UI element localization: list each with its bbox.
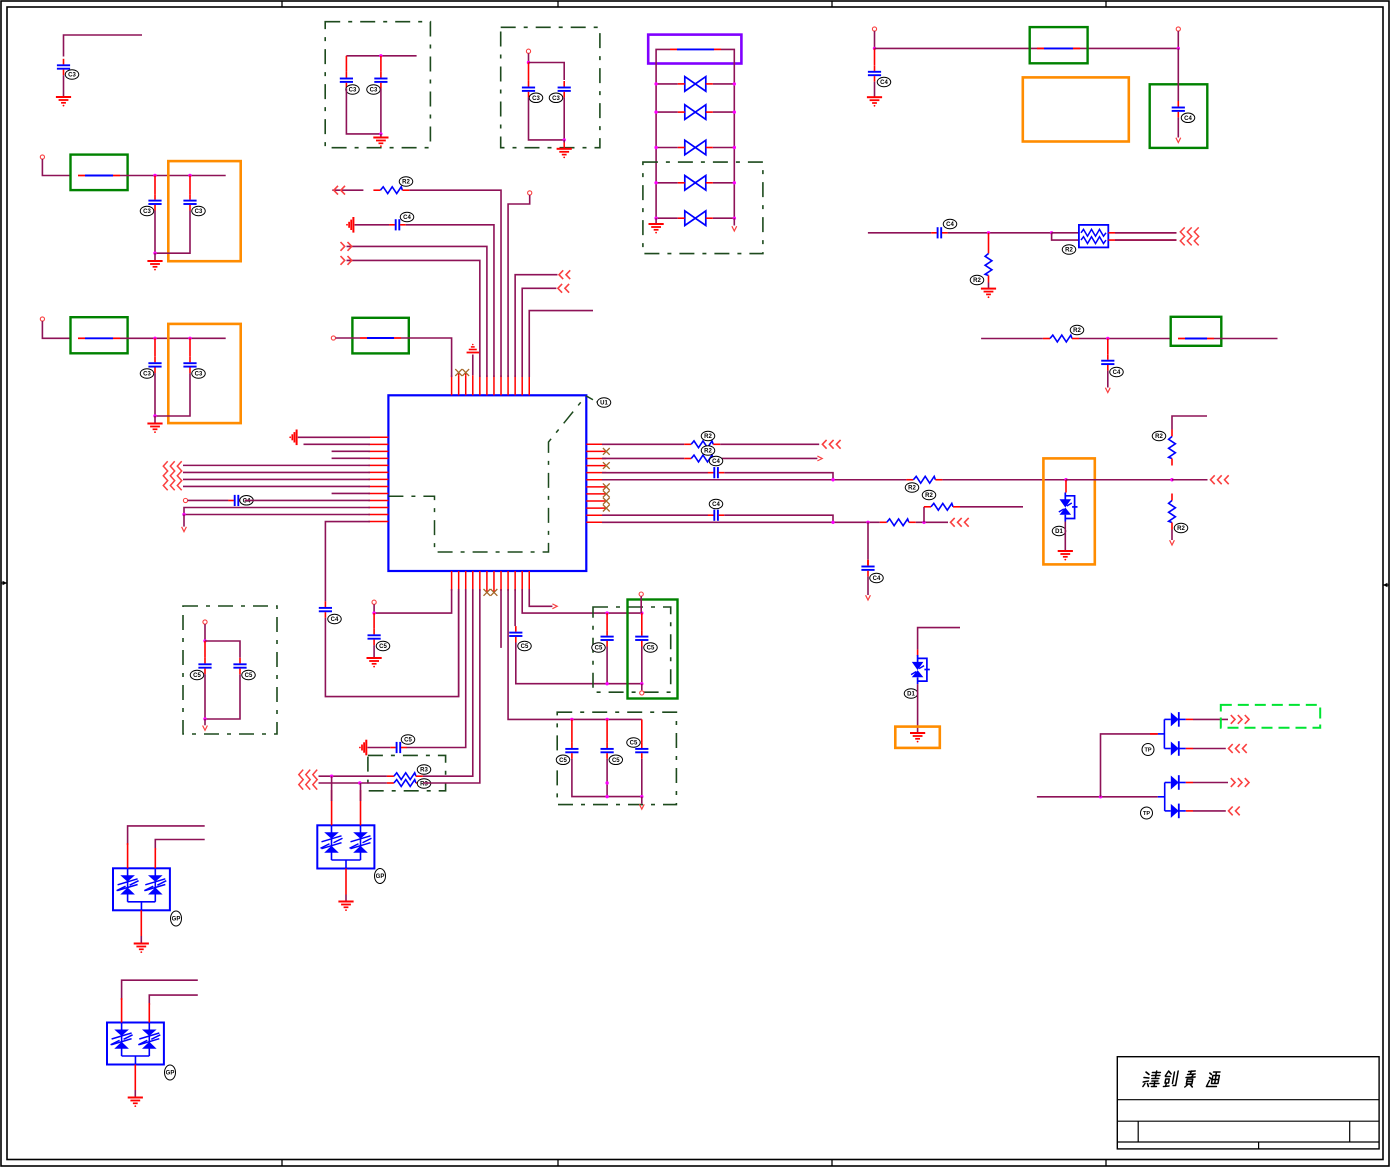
- wire R12 main: [602, 521, 880, 523]
- port arrow L12: [182, 527, 187, 532]
- off-page bus wave L5-L8: [163, 461, 181, 490]
- label C53: [592, 643, 606, 653]
- wire C56 down: [606, 759, 608, 797]
- wire pin T6 to connector: [347, 246, 487, 377]
- wire D4 to arrow: [204, 719, 206, 725]
- capacitor C45 series: [228, 495, 244, 506]
- wire C34 down: [154, 373, 156, 416]
- ground cluster2: [154, 416, 156, 424]
- wire R21 to junction: [1079, 338, 1171, 340]
- port P3: [526, 49, 530, 53]
- svg-text:D1: D1: [1055, 529, 1063, 535]
- junction: [1177, 47, 1180, 50]
- ground O5: [910, 733, 925, 742]
- diode D17b: [1164, 748, 1170, 750]
- wire B11 to caps A B: [522, 589, 642, 613]
- wire B12 to arrow: [529, 589, 552, 606]
- wire GP2 col2 top: [149, 995, 198, 1005]
- label C36: [346, 85, 360, 95]
- capacitor C32: [154, 176, 156, 195]
- label C37: [367, 85, 381, 95]
- wire C55 down: [572, 759, 642, 797]
- wire D17b out: [1193, 748, 1226, 750]
- port P10: [639, 592, 643, 596]
- wire C45 to pin L10: [245, 499, 370, 501]
- wire D18b out: [1193, 810, 1226, 812]
- capacitor C59: [233, 658, 246, 674]
- wire L12: [184, 514, 370, 516]
- dashed box D6: [557, 712, 676, 804]
- port P1: [40, 155, 44, 159]
- wire D17a out: [1193, 718, 1228, 720]
- orange box O5: [895, 727, 940, 748]
- chassis symbol B3: [359, 740, 366, 756]
- label C41: [1181, 113, 1195, 123]
- port arrow C41: [1176, 138, 1181, 143]
- wire FB2 to caps: [120, 337, 226, 339]
- dashed box D7 (resistors): [368, 755, 446, 790]
- port arrow right B12: [552, 604, 557, 609]
- capacitor C39: [558, 81, 571, 97]
- junction: [605, 718, 608, 721]
- label C31: [65, 70, 79, 80]
- diode D17a: [1164, 718, 1170, 720]
- capacitor C53: [606, 613, 608, 630]
- label C43: [1110, 367, 1124, 377]
- capacitor C54: [641, 613, 643, 630]
- wire FB3 to pin T1: [401, 338, 452, 377]
- svg-text:C3: C3: [143, 209, 151, 215]
- wire C33 down: [155, 211, 190, 254]
- wire row338 right: [1214, 338, 1278, 340]
- junction: [153, 252, 156, 255]
- svg-text:R2: R2: [704, 449, 712, 455]
- no-connect R10: [603, 505, 610, 512]
- orange box U-opt1: [168, 161, 240, 261]
- wire R1 to resistor: [602, 443, 684, 445]
- label C49: [870, 573, 884, 583]
- wire wave to R31: [319, 782, 387, 784]
- no-connect R2: [603, 448, 610, 455]
- ferrite bead FB1 green box: [71, 155, 128, 191]
- label D15: [1052, 526, 1066, 536]
- wire GP2 to ground: [134, 1065, 136, 1091]
- label R24: [701, 446, 715, 456]
- resistor pack RP1 box: [1079, 225, 1108, 248]
- wire B3 to series cap chain: [406, 589, 466, 748]
- ground R20: [981, 289, 996, 299]
- off-page chevron left T10: [559, 270, 570, 279]
- IC U1 inner dashed region: [388, 396, 586, 552]
- label C55: [556, 755, 570, 765]
- wire C44 to pin T7: [406, 225, 494, 377]
- wire chassis to C44: [355, 224, 390, 226]
- off-page chevron left D18b: [1229, 807, 1240, 816]
- off-page chevron right T5: [341, 256, 352, 265]
- wire C49 to arrow: [867, 576, 869, 595]
- off-page chevron right D17a: [1231, 715, 1249, 724]
- label C52: [518, 641, 532, 651]
- label C54: [644, 643, 658, 653]
- svg-text:C4: C4: [880, 80, 888, 86]
- wire L8: [183, 485, 370, 487]
- svg-text:R2: R2: [908, 486, 916, 492]
- wire to resistor pack lower: [1052, 233, 1079, 240]
- label C42: [943, 219, 957, 229]
- wire C42 to junction: [948, 232, 1052, 234]
- wire P2 down: [42, 321, 70, 338]
- diode pair D14 row: [654, 211, 736, 226]
- junction: [1170, 478, 1173, 481]
- IC U1 top pin stubs: [452, 375, 530, 395]
- diode pair D13 row: [654, 176, 736, 191]
- wire D16 down: [917, 684, 919, 733]
- wire net lower right: [1037, 796, 1158, 798]
- wire D18a out: [1193, 782, 1228, 784]
- green box G5: [1150, 84, 1208, 148]
- svg-text:C5: C5: [630, 741, 638, 747]
- port P12: [203, 620, 207, 624]
- junction: [605, 781, 608, 784]
- svg-text:C3: C3: [195, 372, 203, 378]
- title block outline: [1117, 1057, 1379, 1149]
- no-connect R7: [603, 483, 610, 490]
- no-connect B7: [493, 591, 495, 592]
- wire GP3 col1 up: [331, 790, 333, 825]
- capacitor C36: [345, 56, 347, 72]
- resistor R27 down: [1169, 494, 1176, 530]
- wire L5: [183, 464, 370, 466]
- capacitor C51 series: [390, 742, 406, 753]
- junction: [605, 611, 608, 614]
- junction: [527, 61, 530, 64]
- ferrite bead FB2 green box: [71, 317, 128, 353]
- capacitor C42 series: [931, 227, 947, 238]
- port P8: [183, 498, 187, 502]
- label U1: [597, 398, 611, 408]
- svg-text:R3: R3: [420, 768, 428, 774]
- wire R30 to pin B4: [423, 589, 473, 776]
- off-page chevron left D17b: [1229, 744, 1247, 753]
- svg-text:TP: TP: [1143, 811, 1150, 817]
- capacitor C56: [606, 719, 608, 742]
- green box G6: [1171, 317, 1222, 346]
- wire junction up to upper pair: [1101, 734, 1158, 797]
- junction: [831, 478, 834, 481]
- label C58: [190, 670, 204, 680]
- junction: [188, 337, 191, 340]
- wire R22 to pin T8: [409, 190, 501, 377]
- svg-text:C3: C3: [143, 372, 151, 378]
- ground D2: [563, 140, 565, 143]
- label C35: [192, 369, 206, 379]
- no-connect R8: [603, 491, 610, 498]
- svg-text:C3: C3: [68, 73, 76, 79]
- border zone ticks bottom: [281, 1160, 283, 1167]
- bright green dashed box: [1221, 705, 1320, 728]
- wire R31 to pin B5: [423, 589, 480, 783]
- resistor R26 up: [1169, 430, 1176, 466]
- wire P1 down: [42, 159, 70, 176]
- capacitor C44 series: [389, 219, 405, 230]
- diode pair D11 row: [654, 105, 736, 120]
- port P2: [40, 317, 44, 321]
- capacitor C37: [380, 56, 382, 72]
- wire junction to port arrow: [183, 515, 185, 527]
- fuse F1: [670, 48, 721, 50]
- svg-text:C3: C3: [370, 88, 378, 94]
- wire R24 to arrow: [720, 457, 817, 459]
- junction: [605, 682, 608, 685]
- svg-text:D1: D1: [907, 692, 915, 698]
- orange box U-opt2: [168, 324, 240, 423]
- capacitor C47 series: [708, 467, 724, 478]
- dashed box D4: [183, 606, 277, 734]
- junction: [188, 174, 191, 177]
- capacitor C49 below junction: [867, 522, 869, 559]
- wire C35 down: [155, 373, 190, 416]
- port arrow ladder right: [733, 218, 735, 225]
- orange box O4: [1043, 458, 1094, 564]
- ground GP1: [134, 944, 149, 953]
- wire FB1 to caps: [120, 175, 226, 177]
- IC U1 right pin stubs: [586, 444, 606, 522]
- label R20: [970, 275, 984, 285]
- port arrow C43: [1105, 388, 1110, 393]
- label R26: [1152, 431, 1166, 441]
- svg-text:C5: C5: [612, 758, 620, 764]
- off-page chevron left T8: [334, 186, 345, 195]
- ferrite bead FB1: [78, 175, 120, 177]
- wire R27 to arrow: [1171, 530, 1173, 541]
- resistor pack RP1 zigzag upper: [1081, 229, 1106, 236]
- svg-text:C4: C4: [331, 617, 339, 623]
- junction: [1099, 795, 1102, 798]
- wire B1 to port cap gnd: [374, 589, 452, 613]
- wire P5 to C41: [1177, 48, 1179, 101]
- border zone ticks top: [281, 1, 283, 7]
- capacitor C35: [189, 338, 191, 356]
- junction: [1064, 478, 1067, 481]
- wire P3 down: [528, 53, 530, 62]
- port arrow right R3: [817, 456, 822, 461]
- ferrite bead FB4: [1037, 47, 1080, 49]
- TVS array GP1 box: [113, 868, 170, 910]
- junction: [866, 521, 869, 524]
- wire P10 down: [640, 596, 642, 613]
- wire L6: [183, 471, 370, 473]
- title block row line 1: [1117, 1099, 1379, 1101]
- label C47 upper: [709, 456, 723, 466]
- wire row232 left: [868, 232, 931, 234]
- wire F1 right rail: [721, 49, 734, 218]
- TVS D15: [1059, 493, 1078, 522]
- resistor R29: [924, 503, 960, 510]
- title block divider v1: [1137, 1121, 1139, 1142]
- wire R6 main: [602, 479, 906, 481]
- wire R28 to junction: [916, 521, 948, 523]
- off-page chevron right D18a: [1231, 778, 1249, 787]
- capacitor C58: [204, 641, 206, 658]
- wire pin T11 to connector: [522, 288, 556, 377]
- svg-text:GP: GP: [166, 1071, 175, 1077]
- no-connect R4: [603, 462, 610, 469]
- svg-text:C5: C5: [647, 646, 655, 652]
- capacitor C38: [528, 63, 530, 81]
- wire L1: [298, 436, 370, 438]
- wire TVS to ground: [1064, 522, 1066, 552]
- wire C36 down: [346, 88, 381, 133]
- junction: [873, 47, 876, 50]
- wire C58 down: [204, 674, 206, 719]
- ground cluster1: [154, 253, 156, 261]
- capacitor C52: [509, 626, 522, 642]
- port P5: [1176, 27, 1180, 31]
- ground top-right: [867, 97, 882, 107]
- wire pin T10 to connector: [515, 275, 557, 377]
- wire net to D16: [918, 628, 960, 650]
- svg-text:C5: C5: [404, 738, 412, 744]
- junction: [1050, 231, 1053, 234]
- green box G7: [628, 600, 678, 699]
- wire L2 dangling: [304, 443, 371, 445]
- svg-text:C5: C5: [559, 758, 567, 764]
- wire O4 to junction 1172: [1066, 479, 1172, 481]
- wire T8 connector: [332, 189, 363, 191]
- wire R3 to resistor: [602, 457, 684, 459]
- capacitor C33: [189, 176, 191, 195]
- svg-text:C4: C4: [1113, 370, 1121, 376]
- label D17: [1142, 744, 1154, 756]
- label C45: [240, 496, 254, 506]
- resistor pack RP1 zigzag lower: [1081, 237, 1106, 244]
- wire to resistor pack upper: [1052, 232, 1079, 234]
- junction: [153, 174, 156, 177]
- resistor R23: [684, 441, 720, 448]
- label C48 lower: [709, 499, 723, 509]
- wire C48 corner to junction: [724, 515, 833, 522]
- wire P8 to C45: [188, 499, 229, 501]
- junction: [182, 513, 185, 516]
- ferrite bead FB2: [78, 337, 120, 339]
- wire R20 gnd: [988, 283, 990, 289]
- wire F1 left rail: [656, 49, 670, 218]
- diode D18b: [1165, 810, 1171, 812]
- port P9: [372, 600, 376, 604]
- svg-text:R2: R2: [1155, 434, 1163, 440]
- capacitor C48 series: [708, 510, 724, 521]
- label R23: [701, 431, 715, 441]
- resistor R28: [880, 519, 916, 526]
- TVS D16: [911, 655, 930, 684]
- junction: [203, 717, 206, 720]
- capacitor C57: [641, 719, 643, 742]
- ground D1: [380, 134, 382, 138]
- label R21: [1070, 325, 1084, 335]
- junction: [987, 231, 990, 234]
- wire C53 down: [606, 647, 608, 684]
- wire junction to connector right: [1172, 479, 1208, 481]
- wire pin T5 to connector: [347, 260, 480, 377]
- port arrow C49: [866, 595, 871, 600]
- capacitor C46: [319, 601, 332, 617]
- off-page bus wave B4 B5: [299, 770, 317, 790]
- junction: [379, 132, 382, 135]
- junction: [203, 639, 206, 642]
- wire B8 dangling: [500, 589, 502, 648]
- label RP1: [1062, 245, 1076, 255]
- capacitor C55: [571, 719, 573, 742]
- wire junction up to resistor R29: [923, 507, 925, 522]
- junction: [372, 611, 375, 614]
- capacitor C50: [373, 613, 375, 629]
- resistor R21: [1043, 335, 1079, 342]
- ground B1: [367, 658, 382, 667]
- wire C52 to bottom rail: [516, 643, 642, 684]
- wire B9 to cap bank D6: [508, 589, 642, 719]
- capacitor C41: [1172, 101, 1185, 117]
- svg-text:R2: R2: [402, 180, 410, 186]
- label C59: [242, 670, 256, 680]
- no-connect T3: [465, 372, 467, 375]
- resistor R24: [684, 455, 720, 462]
- dashed box D2: [501, 27, 600, 147]
- wire L3: [332, 450, 370, 452]
- resistor R20 to ground: [988, 233, 990, 247]
- label C57: [627, 738, 641, 748]
- port P11: [640, 691, 644, 695]
- wire C41 to port: [1177, 117, 1179, 137]
- no-connect B6: [486, 591, 488, 592]
- wire D4 top: [205, 641, 240, 658]
- TVS array GP3 box: [317, 825, 374, 868]
- svg-text:C5: C5: [379, 644, 387, 650]
- capacitor C43: [1107, 339, 1109, 355]
- no-connect T2: [458, 372, 460, 375]
- resistor R30: [387, 773, 423, 780]
- dashed box D3 (ladder lower): [643, 162, 763, 254]
- dashed leader to label: [586, 396, 597, 402]
- chassis symbol L1: [289, 430, 296, 446]
- green box G4: [1030, 27, 1088, 63]
- label C50: [376, 641, 390, 651]
- wire B2 long left: [458, 589, 460, 697]
- dashed box D5: [593, 607, 671, 692]
- label C38: [529, 93, 543, 103]
- off-page wavy out: [1180, 227, 1198, 245]
- port P7: [528, 191, 532, 195]
- junction: [570, 718, 573, 721]
- svg-text:C4: C4: [403, 215, 411, 221]
- label GP3: [375, 869, 386, 884]
- wire D2 top: [529, 63, 565, 81]
- wire P7 to pin T9: [508, 195, 530, 377]
- label C32: [140, 206, 154, 216]
- label R29: [922, 490, 936, 500]
- wire P6 to FB3: [336, 337, 361, 339]
- wire D6 to arrow: [641, 797, 643, 804]
- svg-text:C3: C3: [532, 96, 540, 102]
- junction: [1106, 337, 1109, 340]
- wire C39 down: [563, 97, 565, 139]
- svg-text:R2: R2: [973, 278, 981, 284]
- chassis symbol T7: [346, 217, 353, 233]
- label C44: [400, 212, 414, 222]
- label C46: [328, 614, 342, 624]
- junction: [640, 682, 643, 685]
- junction: [605, 795, 608, 798]
- no-connect R9: [603, 498, 610, 505]
